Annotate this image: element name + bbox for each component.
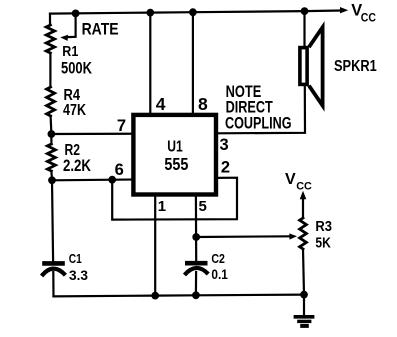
R3 wiper arrowhead bbox=[289, 233, 297, 239]
wire C2 to bottom rail bbox=[195, 272, 197, 295]
svg-text:6: 6 bbox=[115, 161, 124, 179]
svg-text:V: V bbox=[285, 171, 296, 188]
svg-text:3.3: 3.3 bbox=[69, 268, 88, 283]
op-amp U1 555 timer box bbox=[133, 115, 216, 195]
svg-text:COUPLING: COUPLING bbox=[225, 113, 292, 132]
svg-text:555: 555 bbox=[164, 154, 188, 174]
capacitor C2 bbox=[185, 263, 209, 275]
wire pin6/pin2 tie: drop, across, up, stub bbox=[112, 178, 237, 220]
svg-text:500K: 500K bbox=[61, 58, 93, 77]
wire pin 3 to speaker bbox=[217, 86, 306, 133]
wire node to pin 7 bbox=[51, 133, 133, 136]
node pin8 / top rail bbox=[189, 8, 197, 16]
node R2/C1/pin6 bbox=[48, 176, 56, 184]
svg-text:5: 5 bbox=[199, 198, 207, 215]
svg-text:2: 2 bbox=[221, 159, 230, 177]
resistor R4 bbox=[47, 87, 55, 116]
node pin5/C2/R3 wiper bbox=[192, 233, 200, 241]
wire bottom rail bbox=[54, 295, 305, 297]
node speaker / top rail bbox=[301, 7, 309, 15]
wire R4 to node bbox=[49, 116, 52, 134]
wire R3 wiper from pin5 node bbox=[196, 235, 291, 238]
node pin6 tie junction bbox=[108, 176, 116, 184]
svg-text:8: 8 bbox=[198, 94, 208, 114]
capacitor C1 bbox=[42, 263, 66, 276]
svg-text:4: 4 bbox=[156, 94, 166, 114]
wire R3 bottom bbox=[303, 249, 304, 295]
svg-text:5K: 5K bbox=[315, 236, 331, 252]
R3 top arrow to Vcc bbox=[300, 191, 307, 199]
wire left branch vertical top bbox=[49, 14, 51, 25]
node pin1 / bottom rail bbox=[151, 292, 159, 300]
svg-text:47K: 47K bbox=[63, 102, 86, 119]
ground bbox=[294, 317, 315, 326]
svg-text:CC: CC bbox=[296, 181, 312, 193]
wire pin 5 drop to C2 bbox=[195, 195, 198, 262]
svg-text:0.1: 0.1 bbox=[211, 266, 228, 282]
svg-text:2.2K: 2.2K bbox=[63, 156, 92, 175]
node R4/R2/pin7 bbox=[48, 130, 56, 138]
svg-text:1: 1 bbox=[158, 198, 166, 215]
wire speaker top bbox=[303, 11, 305, 47]
resistor R1 bbox=[46, 25, 54, 53]
svg-text:SPKR1: SPKR1 bbox=[334, 58, 377, 75]
resistor R2 bbox=[50, 134, 52, 144]
wire R3 top arrow shaft bbox=[302, 196, 304, 218]
svg-text:3: 3 bbox=[220, 136, 229, 154]
wire node to pin 6 bbox=[52, 178, 133, 181]
Vcc arrowhead top right bbox=[340, 7, 348, 13]
svg-text:C1: C1 bbox=[69, 251, 82, 266]
node C2 / bottom rail bbox=[192, 291, 200, 299]
resistor R3 bbox=[300, 218, 307, 249]
svg-text:RATE: RATE bbox=[82, 20, 119, 39]
wire C1 to bottom rail corner bbox=[52, 272, 54, 296]
svg-text:7: 7 bbox=[117, 117, 126, 135]
svg-text:CC: CC bbox=[361, 11, 376, 25]
node pin4 / top rail bbox=[146, 9, 154, 17]
wire ground stub bbox=[303, 295, 305, 316]
node RATE wiper / top rail bbox=[72, 10, 80, 18]
speaker SPKR1 bbox=[300, 27, 323, 105]
svg-text:C2: C2 bbox=[211, 251, 225, 266]
node R3 / bottom rail / ground bbox=[300, 291, 308, 299]
wire pin 4 riser bbox=[149, 13, 151, 115]
R1 wiper arrow bbox=[67, 13, 76, 37]
svg-text:R3: R3 bbox=[315, 219, 332, 235]
wire R2 node down to C1 bbox=[52, 180, 53, 261]
wire R1 to R4 bbox=[49, 53, 51, 87]
wire pin 1 drop bbox=[154, 195, 156, 296]
wire pin 8 riser bbox=[192, 12, 194, 115]
wire top rail Vcc bbox=[50, 11, 341, 14]
